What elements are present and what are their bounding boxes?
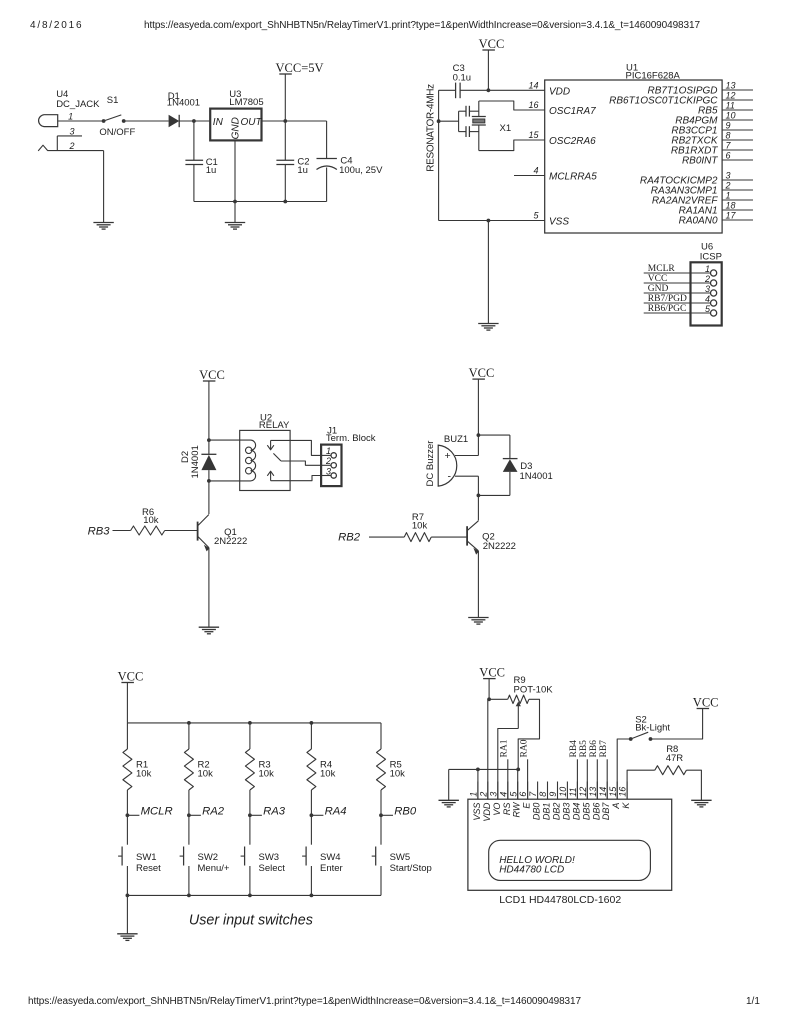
svg-text:VCC: VCC <box>469 366 495 380</box>
diode D1 1N4001 <box>167 91 200 127</box>
svg-text:2N2222: 2N2222 <box>483 541 516 552</box>
wire R7 to Q2 base <box>431 536 467 538</box>
svg-text:1u: 1u <box>206 165 217 176</box>
svg-text:DC_JACK: DC_JACK <box>56 99 100 110</box>
svg-text:14: 14 <box>598 787 608 797</box>
node RW bus junction <box>516 768 520 772</box>
switch SW4 Enter <box>302 847 343 874</box>
svg-text:RB3: RB3 <box>88 525 111 537</box>
power flag VCC (switches) <box>121 682 133 684</box>
wire VCC=5V stem <box>284 74 286 121</box>
net label RB0 <box>381 806 417 818</box>
switch S2 Bk-Light <box>629 715 671 741</box>
capacitor C2 1u <box>276 157 309 176</box>
svg-text:DB3: DB3 <box>561 803 571 821</box>
wire resonator left bus <box>438 90 440 220</box>
pin 15 A (LCD1) <box>608 782 621 810</box>
wire E column <box>527 759 529 799</box>
wire pot right terminal to RW <box>518 699 539 769</box>
transistor Q2 2N2222 <box>467 521 516 555</box>
svg-text:A: A <box>611 803 621 810</box>
pin 13 DB6 (LCD1) <box>588 782 601 821</box>
terminal block J1 <box>321 426 376 487</box>
svg-text:https://easyeda.com/export_ShN: https://easyeda.com/export_ShNHBTN5n/Rel… <box>144 20 700 31</box>
svg-text:1N4001: 1N4001 <box>167 98 200 109</box>
svg-text:VDD: VDD <box>482 802 492 822</box>
wire relay to Q1 collector <box>208 481 210 514</box>
wire RW column <box>517 769 519 799</box>
svg-text:2: 2 <box>704 274 710 284</box>
net label MCLR <box>127 806 172 818</box>
display LCD1 HD44780LCD-1602 <box>468 799 672 906</box>
resistor R8 47R <box>655 744 687 775</box>
wire rail to R3 <box>249 723 251 749</box>
net label RA3 <box>250 806 286 818</box>
svg-text:RB4: RB4 <box>569 740 579 758</box>
svg-text:VCC: VCC <box>479 665 505 679</box>
svg-text:RELAY: RELAY <box>259 420 290 431</box>
wire relay coil bottom lead <box>209 480 251 482</box>
ground (switches) <box>117 934 137 941</box>
svg-text:MCLRRA5: MCLRRA5 <box>549 172 597 183</box>
pin 4 MCLRRA5 (U1 left) <box>533 166 597 183</box>
wire VSS column <box>477 769 479 799</box>
svg-text:3: 3 <box>726 171 731 181</box>
svg-text:RA0: RA0 <box>519 739 529 757</box>
wire ground bus (LCD) <box>449 768 519 770</box>
wire Q1 emitter to ground <box>208 548 210 628</box>
pin 8 DB1 (LCD1) <box>538 782 551 821</box>
svg-text:ICSP: ICSP <box>700 252 722 263</box>
svg-text:6: 6 <box>518 792 528 797</box>
svg-text:14: 14 <box>528 80 538 90</box>
node bottom rail junction <box>126 894 130 898</box>
wire resonator to OSC2 pin15 <box>479 140 545 151</box>
wire ICSP pin 3 <box>644 292 711 294</box>
svg-text:17: 17 <box>726 211 737 221</box>
svg-text:11: 11 <box>726 101 735 111</box>
ground (Q2) <box>468 618 488 625</box>
switch SW2 Menu/+ <box>180 847 230 874</box>
svg-text:100u, 25V: 100u, 25V <box>339 165 383 176</box>
wire MCLR pin4 stub <box>514 175 545 177</box>
svg-text:47R: 47R <box>666 753 684 764</box>
svg-text:RB0INT: RB0INT <box>682 156 718 167</box>
svg-text:2N2222: 2N2222 <box>214 536 247 547</box>
wire SW5 to bottom rail <box>380 866 382 895</box>
svg-text:Bk-Light: Bk-Light <box>635 723 670 734</box>
pin 3 VO (LCD1) <box>488 782 501 816</box>
pin 5 U6 <box>705 304 717 316</box>
pin 1 J1 <box>321 446 336 458</box>
node top rail junction <box>187 721 191 725</box>
svg-text:Start/Stop: Start/Stop <box>390 863 432 874</box>
svg-text:12: 12 <box>578 787 588 797</box>
svg-text:User input switches: User input switches <box>189 912 313 928</box>
svg-text:10k: 10k <box>143 515 159 526</box>
wire R8 to ground <box>686 770 701 800</box>
wire U3 GND pin down <box>234 140 236 201</box>
svg-text:RA0AN0: RA0AN0 <box>679 216 718 227</box>
svg-text:VDD: VDD <box>549 86 570 97</box>
svg-text:ON/OFF: ON/OFF <box>99 127 135 138</box>
wire C2 bottom <box>284 165 286 202</box>
svg-text:RB6: RB6 <box>589 740 599 758</box>
wire relay coil top lead <box>209 439 251 441</box>
ground (LCD VSS) <box>439 800 459 807</box>
svg-text:16: 16 <box>618 787 628 797</box>
svg-text:Term. Block: Term. Block <box>326 433 376 444</box>
node bottom rail junction <box>187 894 191 898</box>
node RA3 junction <box>248 813 252 817</box>
svg-text:DB0: DB0 <box>532 803 542 821</box>
svg-text:RA4: RA4 <box>325 806 347 818</box>
svg-text:RS: RS <box>502 803 512 816</box>
svg-text:PIC16F628A: PIC16F628A <box>626 71 681 82</box>
pin 10 RB4PGM (U1 right) <box>675 111 753 127</box>
wire SW1 to bottom rail <box>126 866 128 895</box>
power flag VCC (LCD) <box>483 678 496 680</box>
svg-text:SW5: SW5 <box>390 852 411 863</box>
svg-text:RA3: RA3 <box>263 806 286 818</box>
wire switch bottom rail <box>127 894 381 896</box>
node VDD rail junction <box>487 88 491 92</box>
wire rail to R5 <box>380 723 382 749</box>
pin 12 DB5 (LCD1) <box>578 782 591 821</box>
wire rail to R4 <box>310 723 312 749</box>
svg-text:DB6: DB6 <box>591 803 601 821</box>
svg-text:1N4001: 1N4001 <box>190 445 201 478</box>
wire VCC to relay/D2 <box>208 381 210 440</box>
wire VCC stem (LCD) <box>488 679 490 700</box>
wire VSS rail <box>439 220 545 222</box>
svg-text:RB7/PGD: RB7/PGD <box>648 294 687 304</box>
wire A column to S2 <box>617 739 631 799</box>
pin 12 RB6T1OSC0T1CKIPGC (U1 right) <box>609 91 753 107</box>
svg-text:GND: GND <box>648 284 669 294</box>
pin 6 E (LCD1) <box>518 782 531 809</box>
wire resonator to OSC1 pin16 <box>479 101 545 110</box>
node C2 top junction <box>283 119 287 123</box>
svg-text:6: 6 <box>726 151 731 161</box>
svg-text:8: 8 <box>726 131 731 141</box>
wire DB5 column <box>586 759 588 799</box>
wire ICSP pin 5 <box>644 312 711 314</box>
svg-text:MCLR: MCLR <box>141 806 173 818</box>
resistor R5 10k <box>377 749 406 790</box>
pin 16 K (LCD1) <box>618 782 631 809</box>
svg-text:9: 9 <box>726 121 731 131</box>
wire switch top rail <box>127 722 381 724</box>
wire ICSP pin 1 <box>644 272 711 274</box>
wire R3 to node <box>249 790 251 845</box>
pin 7 DB0 (LCD1) <box>528 782 541 821</box>
svg-text:11: 11 <box>568 787 578 796</box>
wire rail to R2 <box>188 723 190 749</box>
ground (regulator) <box>225 223 245 230</box>
svg-text:Enter: Enter <box>320 863 343 874</box>
svg-text:1: 1 <box>326 446 331 456</box>
resistor R4 10k <box>307 749 336 790</box>
svg-text:10k: 10k <box>320 769 336 780</box>
net label RA4 <box>311 806 346 818</box>
svg-text:RW: RW <box>512 801 522 817</box>
power flag VCC (backlight) <box>697 708 710 710</box>
capacitor C1 1u <box>185 157 217 176</box>
wire bottom rail to ground <box>126 895 128 933</box>
power flag VCC (PIC) <box>482 49 495 51</box>
wire R1 to node <box>126 790 128 845</box>
ground (Q1) <box>199 627 219 634</box>
wire C1 top <box>193 121 195 160</box>
resistor R2 10k <box>184 749 213 790</box>
pin 15 OSC2RA6 (U1 left) <box>528 130 596 147</box>
wire relay NO blade to J1 pin2 <box>281 461 321 465</box>
svg-text:15: 15 <box>528 130 539 140</box>
svg-text:2: 2 <box>325 456 331 466</box>
svg-text:IN: IN <box>213 117 224 128</box>
svg-text:4: 4 <box>705 294 710 304</box>
svg-text:Select: Select <box>259 863 286 874</box>
pin 1 RA2AN2VREF (U1 right) <box>652 191 753 207</box>
svg-text:15: 15 <box>608 786 618 797</box>
svg-text:K: K <box>621 802 631 809</box>
wire DB4 column <box>576 759 578 799</box>
wire D3 bottom to main <box>478 494 510 496</box>
transistor Q1 2N2222 <box>198 515 248 552</box>
wire R4 to node <box>310 790 312 845</box>
wire ground rail under U3 <box>194 201 327 203</box>
svg-text:10k: 10k <box>412 520 428 531</box>
svg-text:https://easyeda.com/export_ShN: https://easyeda.com/export_ShNHBTN5n/Rel… <box>28 996 581 1007</box>
node D1/C1 junction <box>192 119 196 123</box>
node RA2 junction <box>187 813 191 817</box>
svg-text:1: 1 <box>726 191 731 201</box>
node VSS bus junction <box>476 768 480 772</box>
connector U4 DC_JACK <box>38 89 103 151</box>
node U3 GND rail junction <box>233 200 237 204</box>
svg-text:RB7: RB7 <box>599 740 609 758</box>
wire VDD rail left of C3 <box>439 89 456 91</box>
pin 8 RB2TXCK (U1 right) <box>671 131 753 147</box>
ground (input jack) <box>93 223 113 230</box>
capacitor C4 100u,25V (polarized) <box>317 156 384 177</box>
svg-text:Menu/+: Menu/+ <box>198 863 230 874</box>
wire SW4 to bottom rail <box>310 866 312 895</box>
pin 2 RA3AN3CMP1 (U1 right) <box>651 181 753 197</box>
wire R5 to node <box>380 790 382 845</box>
svg-text:VO: VO <box>492 803 502 816</box>
wire relay common to J1 pin1 <box>271 440 322 455</box>
regulator U3 LM7805 <box>210 89 263 140</box>
svg-text:4/8/2016: 4/8/2016 <box>30 20 83 31</box>
resistor R6 10k <box>131 507 165 535</box>
svg-text:3: 3 <box>70 126 75 136</box>
svg-text:16: 16 <box>528 100 538 110</box>
wire RB3 to R6 <box>113 530 131 532</box>
svg-text:POT-10K: POT-10K <box>514 684 554 695</box>
svg-text:0.1u: 0.1u <box>453 72 472 83</box>
resistor R3 10k <box>245 749 274 790</box>
wire buzzer - lead <box>455 475 478 477</box>
switch SW3 Select <box>241 847 286 874</box>
svg-text:2: 2 <box>725 181 731 191</box>
wire SW2 to bottom rail <box>188 866 190 895</box>
svg-text:-: - <box>448 471 452 483</box>
wire VCC to buzzer junction <box>477 379 479 435</box>
svg-text:12: 12 <box>726 91 736 101</box>
svg-text:10k: 10k <box>390 769 406 780</box>
svg-text:10k: 10k <box>198 769 214 780</box>
node top rail junction <box>310 721 314 725</box>
node VSS ground junction <box>487 219 491 223</box>
power flag VCC (relay) <box>203 380 216 382</box>
pin 14 VDD (U1 left) <box>528 80 570 97</box>
microcontroller U1 PIC16F628A <box>545 62 722 233</box>
svg-text:SW1: SW1 <box>136 852 157 863</box>
svg-text:1N4001: 1N4001 <box>520 471 553 482</box>
buzzer BUZ1 DC Buzzer <box>425 434 468 486</box>
svg-text:RB2: RB2 <box>338 531 361 543</box>
wire C4 top <box>326 121 328 159</box>
wire RS column <box>507 759 509 799</box>
svg-text:SW4: SW4 <box>320 852 341 863</box>
pin 5 VSS (U1 left) <box>533 211 569 228</box>
svg-text:10: 10 <box>558 787 568 797</box>
pin 4 RS (LCD1) <box>498 782 511 816</box>
power flag VCC (buzzer) <box>472 378 485 380</box>
svg-text:MCLR: MCLR <box>648 264 676 274</box>
svg-text:OUT: OUT <box>241 117 263 128</box>
svg-text:SW2: SW2 <box>198 852 219 863</box>
svg-text:8: 8 <box>538 792 548 797</box>
pin 13 RB7T1OSIPGD (U1 right) <box>647 81 753 97</box>
svg-text:X1: X1 <box>500 123 512 134</box>
svg-text:1: 1 <box>68 112 73 122</box>
svg-text:VCC: VCC <box>648 274 668 284</box>
resonator X1 (with crystal and caps) <box>459 101 512 151</box>
node bottom rail junction <box>248 894 252 898</box>
ground (PIC VSS) <box>478 324 498 331</box>
wire VDD column <box>487 699 489 799</box>
wire Q2 emitter to ground <box>477 551 479 618</box>
switch S1 ON/OFF <box>99 95 135 138</box>
svg-text:4: 4 <box>533 166 538 176</box>
pin 2 J1 <box>321 456 336 468</box>
svg-text:VSS: VSS <box>549 217 569 228</box>
wire resonator net stub <box>439 120 459 122</box>
wire buzzer + lead <box>455 455 478 457</box>
wire to Q2 collector <box>477 495 479 520</box>
svg-text:SW3: SW3 <box>259 852 280 863</box>
node bottom rail junction <box>310 894 314 898</box>
wire C4 bottom <box>326 168 328 202</box>
node RB0 junction <box>379 813 383 817</box>
wire jack pin2 to ground <box>103 151 105 223</box>
switch SW1 Reset <box>118 847 161 874</box>
svg-text:RB5: RB5 <box>579 740 589 758</box>
svg-text:2: 2 <box>478 792 488 798</box>
node MCLR junction <box>126 813 130 817</box>
pin 4 U6 <box>705 294 717 306</box>
pin 5 RW (LCD1) <box>508 782 521 818</box>
svg-text:13: 13 <box>726 81 736 91</box>
node C2 bottom junction <box>283 200 287 204</box>
pin 3 J1 <box>321 466 336 478</box>
svg-text:Reset: Reset <box>136 863 161 874</box>
wire VSS to ground <box>487 221 489 324</box>
svg-text:OSC1RA7: OSC1RA7 <box>549 106 596 117</box>
wire pot left lead <box>489 698 508 700</box>
svg-text:1/1: 1/1 <box>746 996 760 1007</box>
pin 14 DB7 (LCD1) <box>598 782 611 821</box>
resistor R1 10k <box>123 749 152 790</box>
wire D1 to U3 IN <box>179 120 210 122</box>
capacitor C3 0.1u <box>453 63 472 98</box>
wire VDD rail right of C3 <box>460 89 545 91</box>
wire C1 bottom <box>193 165 195 202</box>
svg-text:10k: 10k <box>259 769 275 780</box>
wire ICSP pin 4 <box>644 302 711 304</box>
wire ICSP pin 2 <box>644 282 711 284</box>
svg-text:DB4: DB4 <box>571 803 581 821</box>
relay U2 <box>240 412 290 490</box>
wire DB6 column <box>596 759 598 799</box>
node buzzer bottom junction <box>477 494 481 498</box>
svg-text:+: + <box>445 450 451 462</box>
wire VCC stem to VDD rail <box>487 50 489 90</box>
wire R6 to Q1 base <box>165 530 198 532</box>
svg-text:1: 1 <box>469 792 479 797</box>
pin 2 VDD (LCD1) <box>478 782 491 822</box>
wire DB7 column <box>606 759 608 799</box>
resistor R7 10k <box>404 512 431 542</box>
switch SW5 Start/Stop <box>372 847 432 874</box>
svg-text:E: E <box>522 802 532 809</box>
svg-text:1u: 1u <box>297 165 308 176</box>
svg-text:DB2: DB2 <box>552 803 562 821</box>
svg-text:DB1: DB1 <box>542 803 552 821</box>
svg-text:RB6/PGC: RB6/PGC <box>648 304 687 314</box>
svg-text:1: 1 <box>705 264 710 274</box>
wire rail to ground (U3) <box>234 202 236 223</box>
svg-text:RA2: RA2 <box>202 806 225 818</box>
svg-text:2: 2 <box>69 141 75 151</box>
wire relay NC to J1 pin3 <box>271 476 322 481</box>
svg-text:3: 3 <box>326 466 331 476</box>
node pot/VDD junction <box>487 697 491 701</box>
svg-text:VCC: VCC <box>118 669 144 683</box>
node relay bottom junction <box>207 479 211 483</box>
wire VCC to switch rail <box>126 683 128 723</box>
svg-text:DB7: DB7 <box>601 802 611 821</box>
wire VCC to S2 <box>651 709 703 740</box>
svg-text:RA1: RA1 <box>500 739 510 757</box>
pin 1 VSS (LCD1) <box>469 782 482 821</box>
svg-text:VCC: VCC <box>479 37 505 51</box>
node resonator net junction <box>437 119 441 123</box>
svg-text:DB5: DB5 <box>581 802 591 821</box>
svg-text:10: 10 <box>726 111 736 121</box>
svg-text:LCD1 HD44780LCD-1602: LCD1 HD44780LCD-1602 <box>499 894 621 906</box>
svg-text:VCC=5V: VCC=5V <box>276 61 324 75</box>
relay switch contacts <box>267 440 281 480</box>
svg-text:S1: S1 <box>107 95 119 106</box>
wire jack pin1 to S1 <box>58 120 104 122</box>
relay coil <box>246 440 256 481</box>
wire U3 OUT rail <box>262 120 327 122</box>
svg-text:VCC: VCC <box>199 368 225 382</box>
